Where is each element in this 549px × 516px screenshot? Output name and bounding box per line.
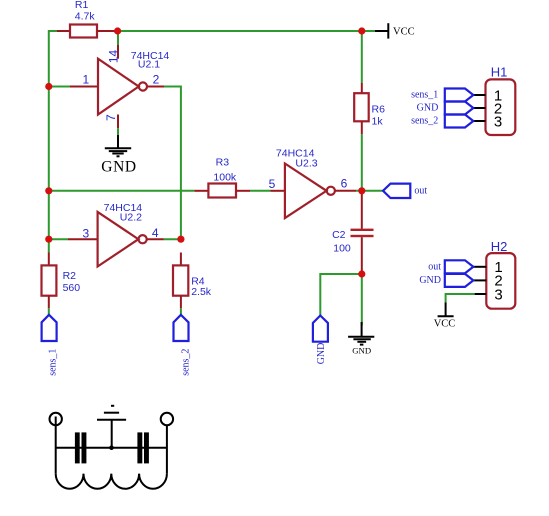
wire R2 to sens_1 bbox=[48, 308, 50, 315]
svg-text:GND: GND bbox=[316, 343, 327, 365]
pin number 6 bbox=[341, 177, 348, 191]
label 100 bbox=[333, 242, 351, 254]
resistor R1 pin stub right bbox=[97, 30, 115, 32]
op-amp U2.3 inverter triangle bbox=[285, 164, 335, 219]
net name out at H2 bbox=[428, 262, 441, 273]
sketch terminal circle right bbox=[161, 413, 173, 425]
resistor R2 pin stub top bbox=[48, 253, 50, 266]
H2 pin 2 wire bbox=[473, 279, 486, 281]
resistor R3 pin stub right bbox=[236, 190, 250, 192]
pin 1 stub bbox=[70, 86, 98, 88]
label R2 bbox=[63, 270, 77, 282]
pin number 1 bbox=[82, 72, 89, 86]
svg-text:C2: C2 bbox=[332, 229, 346, 241]
wire to GND hier label bbox=[320, 274, 362, 316]
svg-text:GND: GND bbox=[417, 103, 439, 114]
svg-text:out: out bbox=[428, 262, 441, 273]
resistor R3 pin stub left bbox=[194, 190, 208, 192]
sketch antenna dash bbox=[111, 405, 114, 407]
svg-text:2: 2 bbox=[153, 72, 160, 86]
svg-text:out: out bbox=[414, 186, 427, 197]
label H2 bbox=[491, 239, 508, 254]
wire middle horizontal bbox=[49, 190, 195, 192]
svg-text:7: 7 bbox=[104, 114, 118, 121]
pin 6 stub bbox=[335, 190, 356, 192]
sketch right vertical bbox=[166, 425, 168, 473]
label R1 bbox=[75, 0, 89, 11]
H1 pin 3 number bbox=[494, 113, 502, 130]
hierarchical label GND at H2 bbox=[445, 274, 474, 287]
resistor R4 bbox=[173, 265, 188, 295]
svg-text:4.7k: 4.7k bbox=[75, 11, 96, 23]
wire pin3 horizontal bbox=[49, 238, 68, 240]
wire pin2 to vertical bbox=[164, 87, 181, 240]
svg-text:U2.3: U2.3 bbox=[295, 157, 317, 169]
svg-text:sens_1: sens_1 bbox=[411, 90, 438, 101]
resistor R3 bbox=[208, 184, 236, 198]
label 560 bbox=[63, 282, 81, 294]
svg-text:U2.1: U2.1 bbox=[138, 59, 160, 71]
wire R4 to sens_2 bbox=[180, 308, 182, 315]
hierarchical label sens_2 at H1 bbox=[445, 115, 474, 128]
op-amp U2.2 inverter triangle bbox=[98, 212, 147, 267]
net name GND at H1 bbox=[417, 103, 439, 114]
net name GND at H2 bbox=[419, 275, 441, 286]
resistor R6 pin stub bottom bbox=[361, 121, 363, 134]
pin 4 stub bbox=[147, 238, 164, 240]
label C2 bbox=[332, 229, 346, 241]
pin number 3 bbox=[83, 227, 90, 241]
junction C2 bottom bbox=[358, 270, 365, 277]
resistor R6 pin stub top bbox=[361, 83, 363, 93]
wire pin14 vertical bbox=[117, 32, 119, 45]
wire pin1 horizontal bbox=[49, 86, 70, 88]
svg-text:VCC: VCC bbox=[393, 27, 415, 38]
sketch center vertical bbox=[111, 420, 113, 448]
svg-text:GND: GND bbox=[101, 159, 136, 176]
ground symbol U2.1 bbox=[101, 135, 136, 176]
H2 pin 1 wire bbox=[473, 266, 486, 268]
junction pin1 tee bbox=[45, 83, 52, 90]
net name GND bbox=[316, 343, 327, 365]
svg-text:R3: R3 bbox=[216, 156, 230, 168]
sketch junction dot bbox=[109, 445, 114, 450]
pin number 7 bbox=[104, 114, 118, 121]
resistor R4 pin stub top bbox=[180, 253, 182, 266]
wire VCC to R6 bbox=[361, 32, 363, 83]
svg-text:R1: R1 bbox=[75, 0, 89, 11]
pin number 4 bbox=[152, 226, 159, 240]
hierarchical label out bbox=[383, 184, 410, 198]
svg-text:5: 5 bbox=[269, 177, 276, 191]
pin 7 stub bbox=[117, 115, 119, 129]
resistor R6 bbox=[354, 93, 369, 121]
junction at R1 output bbox=[114, 27, 121, 34]
label R4 bbox=[191, 275, 205, 287]
wire junction to ground bbox=[361, 274, 363, 326]
wire left vertical bbox=[48, 30, 50, 253]
net name sens_1 bbox=[47, 349, 58, 376]
hierarchical label sens_2 bbox=[174, 315, 189, 341]
svg-text:3: 3 bbox=[494, 113, 502, 130]
svg-text:GND: GND bbox=[352, 345, 371, 355]
power VCC top bbox=[375, 23, 415, 38]
connector H1 bbox=[486, 79, 516, 135]
wire top horizontal right segment bbox=[115, 30, 375, 32]
wire pin6 junction to out bbox=[356, 190, 383, 192]
capacitor C2 bbox=[351, 229, 374, 238]
svg-text:sens_2: sens_2 bbox=[180, 349, 191, 376]
pin 2 stub bbox=[147, 86, 166, 88]
wire pin7 to gnd bbox=[117, 128, 119, 135]
wire R6 to junction bbox=[361, 134, 363, 191]
resistor R2 pin stub bottom bbox=[48, 296, 50, 309]
resistor R1 pin stub left bbox=[57, 30, 70, 32]
connector H2 bbox=[486, 253, 515, 309]
H1 pin 2 wire bbox=[473, 107, 485, 109]
pin 5 stub bbox=[271, 190, 285, 192]
wire pin4 to junction bbox=[164, 238, 182, 240]
svg-text:2.5k: 2.5k bbox=[191, 286, 212, 298]
svg-text:sens_1: sens_1 bbox=[47, 349, 58, 376]
junction pin4 tee bbox=[177, 236, 184, 243]
wire H2 pin3 to VCC bbox=[446, 294, 475, 303]
svg-text:3: 3 bbox=[83, 227, 90, 241]
sketch capacitor bars right pair bbox=[137, 432, 149, 463]
label R3 bbox=[216, 156, 230, 168]
net name sens_2 at H1 bbox=[411, 116, 438, 127]
resistor R1 bbox=[70, 25, 97, 38]
sketch antenna wide bar bbox=[97, 419, 126, 421]
capacitor C2 pin stub top bbox=[361, 191, 363, 229]
svg-text:H1: H1 bbox=[491, 65, 508, 80]
capacitor C2 pin stub bottom bbox=[361, 237, 363, 274]
pin 3 stub bbox=[68, 238, 98, 240]
label 1k bbox=[372, 115, 384, 127]
H1 pin 1 wire bbox=[473, 94, 485, 96]
svg-text:560: 560 bbox=[63, 282, 81, 294]
sketch left vertical bbox=[55, 417, 57, 474]
junction out node bbox=[358, 187, 365, 194]
svg-text:100k: 100k bbox=[213, 172, 237, 184]
svg-text:1: 1 bbox=[82, 72, 89, 86]
svg-text:U2.2: U2.2 bbox=[120, 212, 142, 224]
svg-text:1k: 1k bbox=[372, 115, 384, 127]
H2 pin 2 number bbox=[494, 273, 502, 290]
svg-text:4: 4 bbox=[152, 226, 159, 240]
wire top horizontal left segment bbox=[49, 30, 59, 32]
hierarchical label sens_1 at H1 bbox=[445, 89, 474, 102]
sketch antenna mid bar bbox=[104, 412, 119, 414]
net name out bbox=[414, 186, 427, 197]
wire R3 to pin5 bbox=[250, 190, 271, 192]
svg-text:14: 14 bbox=[107, 50, 121, 64]
H1 pin 2 number bbox=[494, 100, 502, 117]
ground symbol bottom bbox=[348, 322, 374, 355]
svg-text:6: 6 bbox=[341, 177, 348, 191]
svg-text:R2: R2 bbox=[63, 270, 77, 282]
label 2.5k bbox=[191, 286, 212, 298]
resistor R2 bbox=[42, 265, 57, 295]
H2 pin 3 wire bbox=[475, 293, 487, 295]
label 100k bbox=[213, 172, 237, 184]
label H1 bbox=[491, 65, 508, 80]
label 74HC14 U2.3 bbox=[276, 148, 318, 170]
hierarchical label GND at H1 bbox=[445, 102, 474, 115]
H1 pin 3 wire bbox=[473, 120, 485, 122]
label 74HC14 U2.1 bbox=[131, 50, 170, 70]
junction pin3 tee bbox=[45, 236, 52, 243]
hierarchical label sens_1 bbox=[42, 315, 57, 341]
sketch capacitor bars left pair bbox=[75, 432, 87, 463]
svg-text:R6: R6 bbox=[372, 103, 386, 115]
H2 pin 1 number bbox=[494, 259, 502, 276]
pin number 2 bbox=[153, 72, 160, 86]
sketch inductor humps bbox=[56, 474, 167, 489]
H1 pin 1 number bbox=[494, 87, 502, 104]
net name sens_2 bbox=[180, 349, 191, 376]
sketch bus horizontal bbox=[56, 447, 167, 449]
junction at VCC tee bbox=[358, 27, 365, 34]
svg-text:3: 3 bbox=[494, 286, 502, 303]
label 4.7k bbox=[75, 11, 96, 23]
label 74HC14 U2.2 bbox=[104, 202, 143, 224]
hierarchical label GND bbox=[313, 316, 328, 342]
op-amp U2.1 inverter triangle bbox=[98, 59, 147, 115]
resistor R4 pin stub bottom bbox=[180, 296, 182, 309]
label R6 bbox=[372, 103, 386, 115]
hierarchical label out at H2 bbox=[445, 260, 474, 273]
power VCC bottom bbox=[434, 303, 456, 330]
svg-text:GND: GND bbox=[419, 275, 441, 286]
junction mid tee bbox=[45, 187, 52, 194]
sketch terminal circle left bbox=[50, 413, 62, 425]
pin number 14 bbox=[107, 50, 121, 64]
svg-text:H2: H2 bbox=[491, 239, 508, 254]
net name sens_1 at H1 bbox=[411, 90, 438, 101]
svg-text:VCC: VCC bbox=[434, 319, 456, 330]
svg-text:sens_2: sens_2 bbox=[411, 116, 438, 127]
H2 pin 3 number bbox=[494, 286, 502, 303]
pin number 5 bbox=[269, 177, 276, 191]
pin 14 stub bbox=[117, 45, 119, 59]
svg-text:100: 100 bbox=[333, 242, 351, 254]
